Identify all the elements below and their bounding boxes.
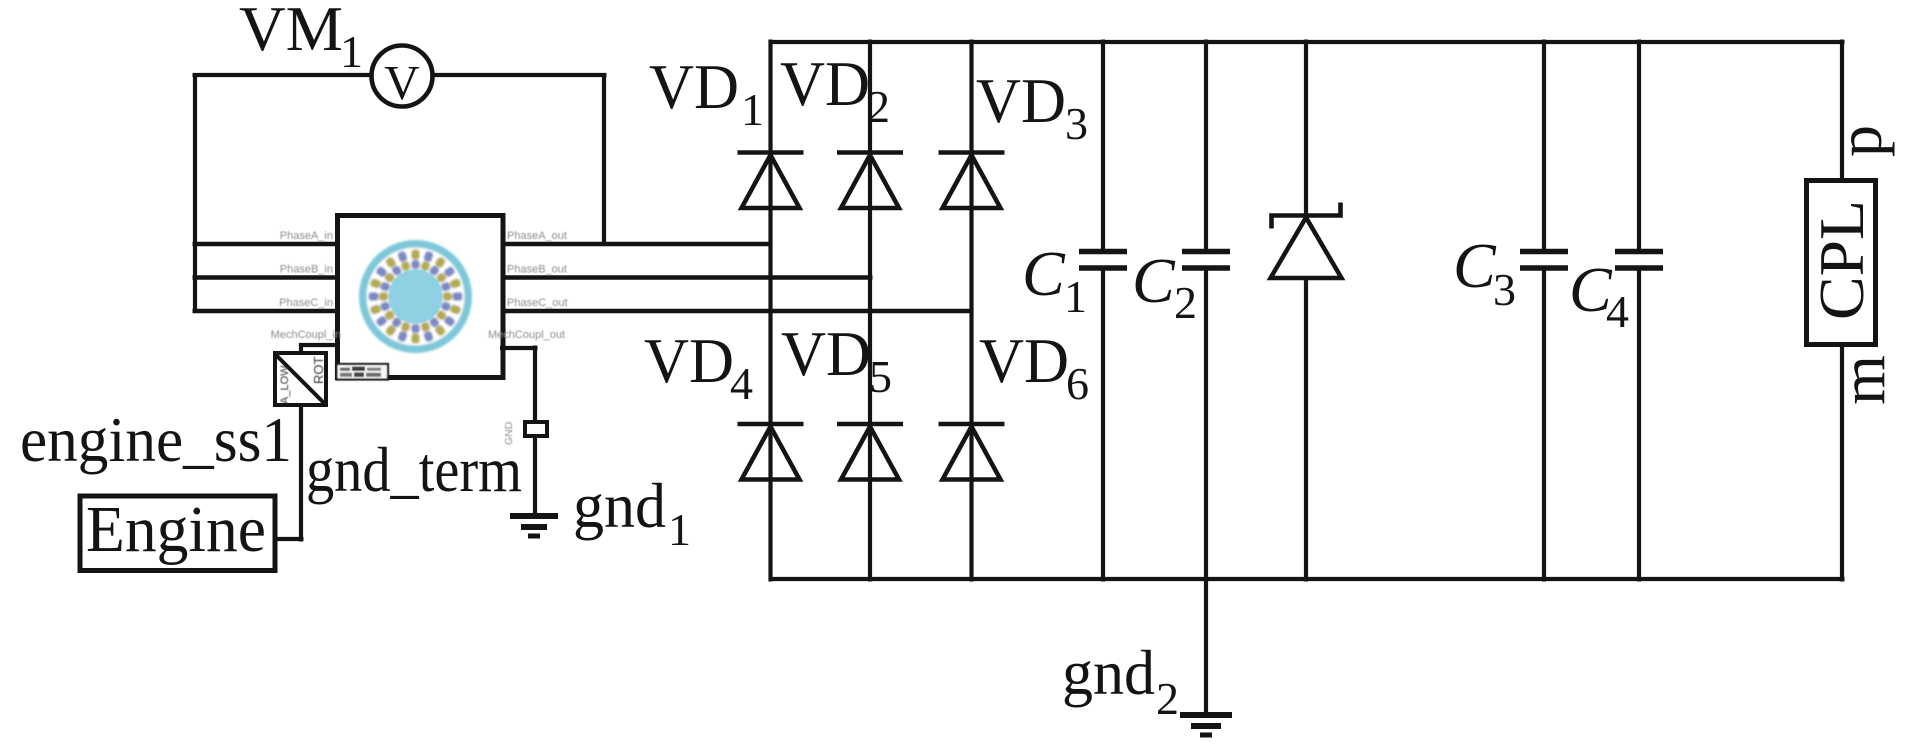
svg-text:2: 2 [867, 81, 890, 132]
capacitor C3 [1520, 40, 1568, 582]
svg-text:engine_ss1: engine_ss1 [20, 404, 292, 475]
wire rectifier leg 1 [768, 40, 772, 582]
svg-text:1: 1 [741, 84, 764, 135]
gnd_term box [525, 422, 547, 436]
wire VM1 loop top left segment [193, 73, 374, 77]
svg-text:1: 1 [668, 504, 691, 555]
ground gnd2 [1180, 715, 1232, 735]
svg-text:A_LOW: A_LOW [279, 365, 291, 404]
svg-text:4: 4 [1606, 286, 1629, 337]
wire CPL top [1840, 40, 1844, 181]
svg-text:MechCoupl_out: MechCoupl_out [488, 329, 565, 341]
wire VM1 loop left vertical [193, 73, 197, 313]
capacitor C2 [1182, 40, 1230, 582]
svg-text:m: m [1827, 355, 1898, 405]
voltmeter VM1 [372, 46, 433, 107]
svg-text:VM: VM [239, 0, 343, 64]
wire rectifier leg 3 [969, 40, 973, 582]
wire VM1 loop top right segment [431, 73, 607, 77]
wire phase B right to leg2 [500, 275, 873, 280]
adaptor ROT box [275, 353, 326, 405]
svg-text:C: C [1453, 230, 1497, 301]
engine block [80, 496, 275, 571]
wire phase C left [193, 309, 341, 314]
diode VD5 [837, 424, 903, 480]
generator name plate [337, 364, 389, 380]
wire ROT-to-engine vertical [299, 405, 303, 542]
svg-text:gnd: gnd [1062, 637, 1155, 708]
wire VM1 loop right vertical [602, 73, 606, 246]
svg-text:3: 3 [1493, 264, 1516, 315]
svg-text:VD: VD [781, 318, 871, 389]
generator stator icon [359, 240, 472, 353]
svg-text:PhaseA_in: PhaseA_in [280, 230, 333, 242]
svg-text:VD: VD [644, 325, 734, 396]
svg-text:gnd_term: gnd_term [306, 434, 522, 505]
svg-text:p: p [1824, 125, 1895, 157]
ground gnd1 [510, 516, 558, 536]
wire engine horizontal [276, 537, 304, 541]
svg-text:VD: VD [979, 325, 1069, 396]
zener diode [1271, 40, 1342, 582]
svg-text:2: 2 [1174, 277, 1197, 328]
diode VD2 [837, 153, 903, 209]
wire phase C right to leg3 [500, 309, 974, 314]
svg-text:4: 4 [730, 358, 753, 409]
svg-text:6: 6 [1066, 358, 1089, 409]
wire phase A left [193, 242, 341, 247]
svg-text:MechCoupl_in: MechCoupl_in [271, 329, 341, 341]
wire gnd2 stem [1204, 579, 1208, 715]
svg-text:V: V [384, 55, 419, 110]
svg-text:VD: VD [976, 65, 1066, 136]
wire rectifier leg 2 [868, 40, 872, 582]
svg-text:VD: VD [780, 48, 870, 119]
wire mech-in horizontal [299, 343, 338, 347]
svg-text:1: 1 [340, 26, 363, 77]
svg-text:3: 3 [1065, 98, 1088, 149]
svg-text:VD: VD [649, 51, 739, 122]
svg-text:gnd: gnd [573, 470, 666, 541]
svg-text:PhaseB_out: PhaseB_out [507, 264, 567, 276]
svg-text:PhaseB_in: PhaseB_in [280, 264, 333, 276]
wire gnd_term to gnd1 [533, 436, 537, 516]
svg-text:PhaseC_in: PhaseC_in [279, 297, 333, 309]
wire phase A right to leg1 [500, 242, 773, 247]
svg-text:CPL: CPL [1806, 200, 1877, 320]
generator block outline [338, 216, 504, 378]
diode VD6 [939, 424, 1005, 480]
capacitor C4 [1615, 40, 1663, 582]
diode VD3 [939, 153, 1005, 209]
svg-text:5: 5 [869, 351, 892, 402]
wire mech-out vertical [533, 346, 537, 423]
CPL block [1807, 181, 1876, 345]
svg-text:ROT: ROT [311, 357, 326, 385]
svg-text:GND: GND [503, 421, 515, 445]
svg-text:Engine: Engine [86, 493, 266, 566]
wire mech-out horizontal [500, 346, 538, 350]
svg-text:2: 2 [1156, 673, 1179, 724]
diode VD4 [738, 424, 804, 480]
svg-text:1: 1 [1064, 271, 1087, 322]
wire bottom bus [770, 577, 1845, 581]
diode VD1 [738, 153, 804, 209]
svg-text:C: C [1022, 238, 1066, 309]
wire CPL bottom [1840, 345, 1844, 582]
svg-text:PhaseA_out: PhaseA_out [507, 230, 567, 242]
wire top bus [770, 40, 1845, 44]
wire phase B left [193, 275, 341, 280]
svg-text:PhaseC_out: PhaseC_out [507, 297, 568, 309]
capacitor C1 [1079, 40, 1127, 582]
svg-text:C: C [1132, 245, 1176, 316]
wire mech-in vertical stub [299, 343, 303, 353]
